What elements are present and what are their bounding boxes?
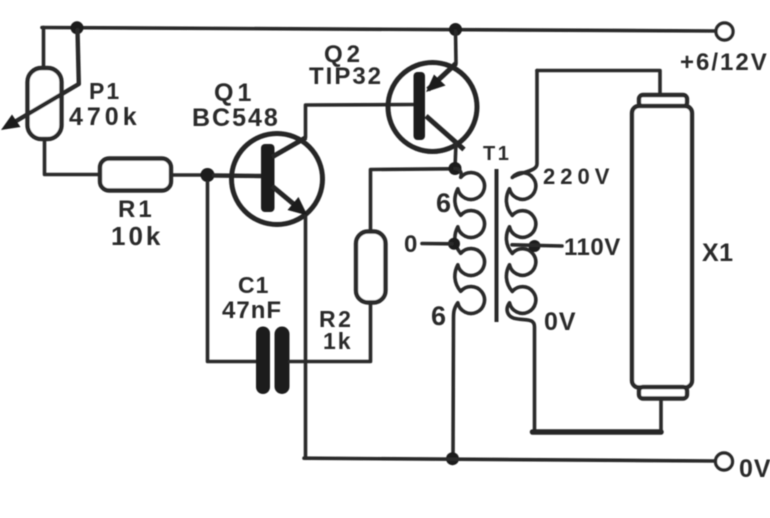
transistor Q2 circle — [388, 63, 477, 152]
Q1 base bar — [261, 144, 275, 212]
wire base node down and right to C1 left plate — [208, 182, 257, 362]
wire Q1 emitter down to bottom rail — [304, 216, 308, 458]
Q2 emitter stroke — [428, 64, 456, 90]
svg-text:X1: X1 — [702, 239, 734, 267]
capacitor C1 left plate — [256, 327, 270, 395]
svg-text:470k: 470k — [69, 103, 141, 131]
fluorescent lamp X1 bottom cap — [639, 387, 687, 399]
fluorescent lamp X1 top cap — [639, 95, 687, 107]
svg-text:0V: 0V — [544, 308, 577, 336]
transformer T1 secondary winding — [506, 71, 537, 430]
wire 110V tap dash — [512, 245, 562, 246]
terminal 0V — [716, 453, 733, 470]
wire P1 bottom to R1 left — [45, 139, 101, 175]
wire top +6/12V supply rail — [42, 28, 716, 32]
node junction primary bottom / bottom rail — [446, 452, 459, 465]
node primary centre tap — [448, 238, 460, 250]
capacitor C1 right plate — [275, 327, 290, 395]
wire Q2 collector to primary node — [455, 142, 456, 169]
transistor Q1 circle — [232, 134, 323, 225]
wire centre tap stub to 0 label — [422, 242, 452, 246]
potentiometer P1 body — [28, 68, 62, 139]
svg-text:110V: 110V — [564, 234, 621, 261]
fluorescent lamp X1 tube — [632, 106, 692, 388]
svg-text:+6/12V: +6/12V — [680, 49, 769, 76]
wire lamp bottom lead — [659, 398, 663, 430]
Q2 emitter arrowhead — [426, 75, 446, 93]
wire P1 wiper from rail junction — [12, 30, 79, 124]
wire P1 top leg to rail — [42, 28, 46, 70]
node junction rail / P1 wiper — [71, 21, 84, 34]
wire R2 top to collector node — [371, 169, 451, 232]
transformer T1 primary winding — [453, 169, 485, 458]
Q2 collector stroke — [426, 116, 464, 150]
terminal +6/12V — [716, 23, 733, 40]
Q1 emitter stroke — [272, 186, 299, 209]
svg-text:1k: 1k — [323, 328, 353, 354]
wire secondary bottom to lamp bottom (thick) — [533, 429, 662, 435]
transformer T1 core — [495, 169, 499, 322]
svg-text:0: 0 — [404, 231, 417, 258]
svg-text:6: 6 — [431, 301, 446, 331]
node junction rail / Q2 emitter — [449, 23, 462, 36]
wire base node to Q1 base — [214, 173, 261, 178]
node junction R1 / Q1 base / C1 — [201, 168, 215, 182]
node secondary 110V tap — [529, 240, 541, 252]
resistor R1 body — [100, 159, 171, 191]
wire Q1 collector to Q2 base — [306, 105, 415, 138]
wire C1 right plate to R2 bottom — [290, 303, 371, 362]
svg-text:T1: T1 — [483, 143, 511, 165]
wire secondary top to lamp top — [537, 71, 660, 97]
svg-text:P1: P1 — [89, 78, 121, 104]
resistor R2 body — [356, 232, 386, 303]
svg-text:R1: R1 — [118, 196, 155, 223]
wire R1 right to base node — [171, 173, 208, 177]
svg-text:Q1: Q1 — [214, 79, 255, 107]
svg-text:10k: 10k — [111, 221, 163, 251]
svg-text:0V: 0V — [739, 455, 770, 483]
node junction Q2 collector / R2 / primary top — [449, 162, 462, 175]
svg-text:C1: C1 — [238, 272, 269, 298]
wire Q2 emitter from rail junction — [454, 31, 458, 64]
P1 wiper arrowhead — [1, 115, 21, 131]
wire bottom 0V rail — [304, 458, 716, 461]
svg-text:6: 6 — [436, 188, 451, 218]
svg-text:TIP32: TIP32 — [309, 63, 383, 90]
Q1 collector stroke — [272, 138, 306, 158]
svg-text:220V: 220V — [543, 164, 614, 189]
Q2 base bar — [414, 72, 426, 140]
svg-text:47nF: 47nF — [222, 297, 282, 324]
svg-text:BC548: BC548 — [192, 104, 280, 132]
Q1 emitter arrowhead — [288, 197, 308, 216]
